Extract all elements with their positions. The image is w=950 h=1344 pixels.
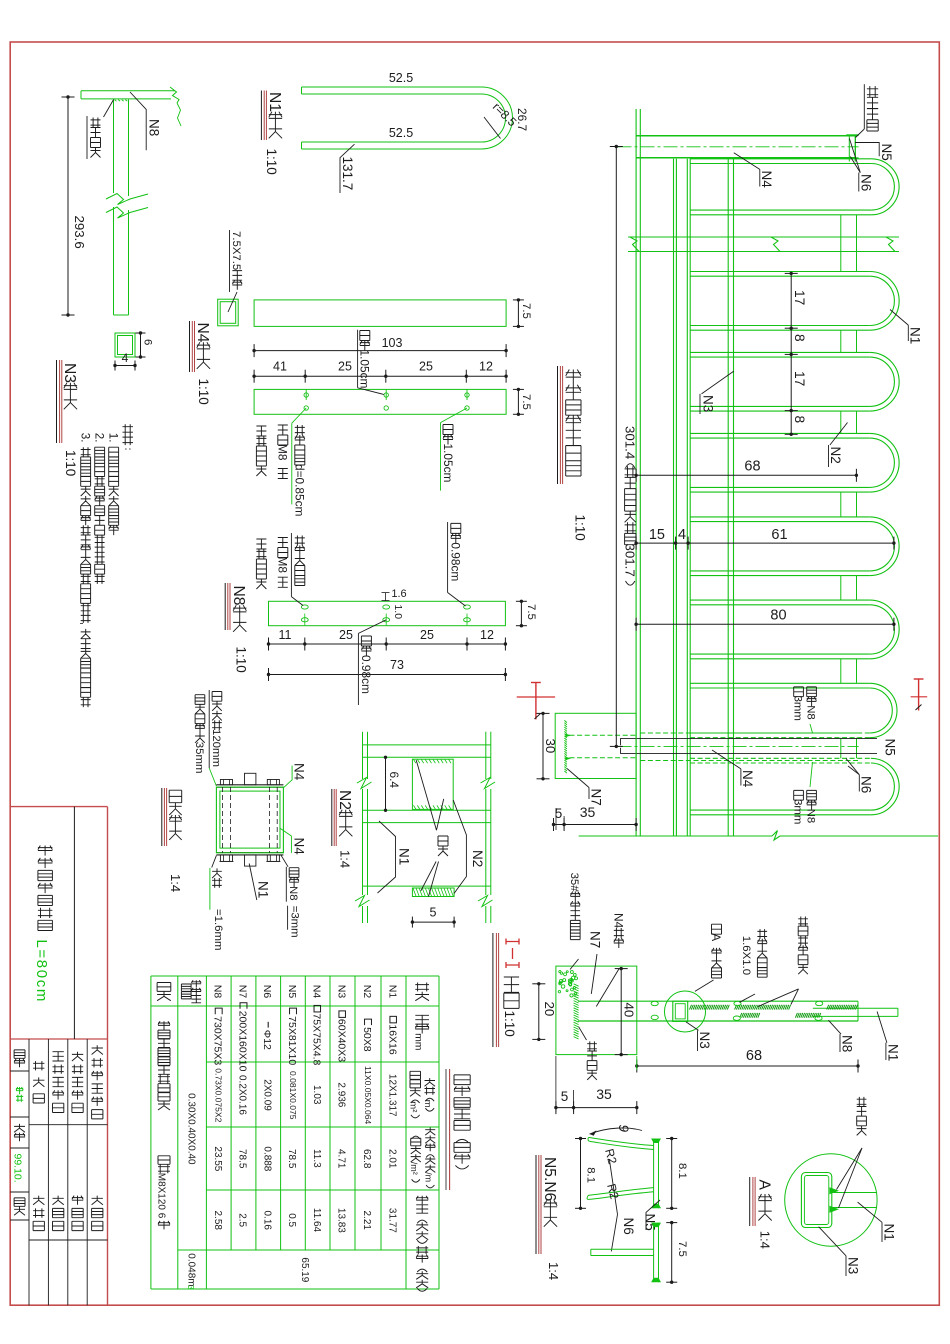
label 垫圈 =1.6mm bbox=[212, 855, 217, 867]
svg-text:30: 30 bbox=[543, 739, 558, 754]
title 乙种护栏立面图 1:10 bbox=[557, 366, 559, 484]
svg-text:7.5X7.5: 7.5X7.5 bbox=[230, 231, 242, 270]
N8 plate cross-section small rect bbox=[115, 333, 135, 357]
svg-text:1.0: 1.0 bbox=[392, 605, 403, 620]
svg-text:35: 35 bbox=[596, 1086, 612, 1102]
title N2 大样 1:4 bbox=[331, 789, 333, 846]
N3 tube section (rounded) bbox=[801, 1173, 831, 1228]
svg-text:5: 5 bbox=[430, 906, 437, 920]
label N5 (top) bbox=[855, 143, 879, 157]
title N4 大样 1:10 bbox=[189, 321, 191, 372]
anchor studs (green triangles) bbox=[565, 734, 571, 738]
label N1 with bent leader bbox=[378, 821, 396, 893]
svg-text:131.7: 131.7 bbox=[340, 157, 355, 191]
weld hatch bands (double cross weld) bbox=[690, 1005, 730, 1010]
label 焊接 with leaders bbox=[416, 760, 436, 830]
svg-text:78.5: 78.5 bbox=[286, 1149, 297, 1169]
dimension 80 bbox=[636, 623, 894, 625]
dimension 5 35 (foundation) bbox=[554, 824, 637, 826]
label 钢板N8 厚3mm (upper) bbox=[807, 687, 817, 706]
svg-text:A: A bbox=[709, 933, 723, 941]
dimension 20 bbox=[538, 984, 540, 1040]
label N4 (right lower, green leader) bbox=[280, 828, 291, 853]
label 周边焊接 (section bottom left) bbox=[579, 1027, 587, 1040]
svg-text:68: 68 bbox=[744, 459, 760, 475]
dimension 6.4 bbox=[385, 757, 387, 810]
svg-text:N4: N4 bbox=[292, 838, 307, 856]
label N4 (top right, green leader) bbox=[283, 766, 292, 788]
label 预留圆孔 d=0.85cm / 内插 M8 型 / 六角头螺栓 (green leader to left hole) bbox=[292, 408, 306, 423]
svg-text:12: 12 bbox=[479, 360, 493, 374]
svg-text:61: 61 bbox=[771, 527, 787, 543]
svg-text:11.3: 11.3 bbox=[311, 1149, 322, 1168]
table header 重量(千克) bbox=[416, 1196, 428, 1244]
label N6 (bottom) bbox=[846, 759, 859, 775]
table row 螺栓 bbox=[157, 983, 171, 1001]
bolt detail: N4 tube square bbox=[216, 787, 283, 853]
svg-text:N4: N4 bbox=[292, 763, 307, 781]
svg-text:M8: M8 bbox=[276, 444, 290, 461]
svg-text:8: 8 bbox=[792, 416, 807, 424]
post N3 (vertical, with break) bbox=[113, 100, 115, 194]
N3 tube section in circle bbox=[673, 1001, 688, 1021]
label 钢板N8 =3mm bbox=[281, 855, 288, 867]
break zigzag left bbox=[630, 237, 639, 252]
horizontal member lines bbox=[363, 744, 491, 746]
svg-text:/m: /m bbox=[424, 1172, 434, 1182]
svg-text:11: 11 bbox=[279, 628, 292, 642]
svg-text:N1: N1 bbox=[387, 985, 398, 999]
svg-text:N5: N5 bbox=[286, 985, 297, 999]
title 螺栓大样 1:4 bbox=[161, 788, 163, 846]
dimension row 11 25 25 12 bbox=[269, 643, 506, 645]
loop bar N1 top bbox=[690, 351, 870, 353]
dimension 5 35 below section bbox=[556, 1107, 637, 1109]
green leader to bolt bbox=[209, 768, 216, 786]
svg-text:25: 25 bbox=[420, 628, 434, 642]
ground line bottom bbox=[579, 835, 772, 837]
svg-text:301.4: 301.4 bbox=[623, 426, 638, 459]
svg-text:6.4: 6.4 bbox=[387, 772, 401, 789]
loop bar N1 bottom bbox=[690, 329, 870, 331]
label 钢板N8 厚3mm (lower) bbox=[807, 790, 817, 809]
table header 编号 bbox=[415, 983, 429, 1001]
break zigzags left rail bbox=[357, 778, 372, 789]
loop bar N1 top bbox=[690, 682, 870, 684]
title block table lines bbox=[28, 1039, 30, 1305]
svg-text:20: 20 bbox=[542, 1002, 557, 1017]
svg-text:N1: N1 bbox=[397, 848, 412, 865]
N2 bottom plate (hatched) bbox=[412, 888, 454, 897]
dimension right 8.1 bbox=[671, 1139, 673, 1209]
svg-text:M8X120 6: M8X120 6 bbox=[155, 1173, 166, 1219]
7.5x7.5 square tube section bbox=[218, 299, 239, 326]
svg-text:Φ12: Φ12 bbox=[261, 1030, 273, 1050]
dimension 30 (foundation width) bbox=[542, 713, 544, 778]
N3 detail: top plate N8 bbox=[81, 90, 175, 92]
svg-text:N5: N5 bbox=[879, 144, 894, 161]
svg-text:2X0.09: 2X0.09 bbox=[261, 1079, 272, 1111]
label N8 (section) bbox=[828, 1020, 841, 1034]
svg-text:=3mm: =3mm bbox=[288, 906, 300, 938]
label 详 A 大样图 bbox=[712, 924, 722, 978]
label N1 (loop) bbox=[890, 310, 908, 326]
label 螺栓长度 120mm / 其中螺纹长 35mm bbox=[208, 690, 210, 768]
dimension 68 (section) bbox=[637, 1065, 858, 1067]
label 周边焊接 (A detail) bbox=[857, 1097, 867, 1136]
post embedded dashed in foundation bbox=[570, 734, 637, 736]
ground line pair (full height) bbox=[635, 109, 637, 836]
svg-text:23.55: 23.55 bbox=[212, 1146, 223, 1171]
dimension 15 4 61 bbox=[636, 542, 894, 544]
section foundation block bbox=[556, 966, 637, 1055]
svg-text:L=80cm: L=80cm bbox=[33, 939, 50, 1001]
svg-text:N1: N1 bbox=[886, 1044, 901, 1061]
N4 lower plate with holes bbox=[254, 389, 506, 414]
svg-text:0.98cm: 0.98cm bbox=[359, 655, 373, 694]
svg-text:d=0.85cm: d=0.85cm bbox=[293, 464, 307, 517]
svg-text:60X40X3: 60X40X3 bbox=[335, 1019, 347, 1062]
N1 bar stub top bbox=[245, 773, 256, 785]
dimension 103 bbox=[254, 350, 506, 352]
svg-text:9: 9 bbox=[616, 1125, 631, 1133]
svg-text:N8: N8 bbox=[287, 886, 299, 901]
dimension 7.5 right of N8 plate bbox=[520, 601, 522, 625]
svg-text:N4: N4 bbox=[612, 913, 626, 929]
svg-text:35: 35 bbox=[580, 804, 596, 820]
dimension 4 bbox=[115, 365, 135, 367]
svg-text:1:10: 1:10 bbox=[502, 1011, 517, 1037]
loop arc bbox=[870, 683, 897, 737]
svg-text:N4: N4 bbox=[740, 770, 755, 788]
title N8 大样 1:10 bbox=[224, 583, 226, 630]
svg-text:75X75X4.8: 75X75X4.8 bbox=[310, 1013, 322, 1065]
svg-text:41: 41 bbox=[273, 360, 287, 374]
label 35#混凝土基础 bbox=[570, 892, 580, 940]
label 双面交叉焊接 bbox=[798, 917, 808, 975]
label 净距 0.98cm upper right with leader bbox=[447, 522, 449, 593]
svg-text:301.7: 301.7 bbox=[623, 544, 638, 577]
svg-text:N2: N2 bbox=[336, 790, 353, 810]
label N2 with bent leader bbox=[453, 800, 466, 894]
svg-text:N5: N5 bbox=[643, 1214, 658, 1231]
svg-text:1.05cm: 1.05cm bbox=[441, 444, 455, 483]
svg-text:1:10: 1:10 bbox=[234, 647, 249, 673]
svg-text:12: 12 bbox=[480, 628, 494, 642]
svg-text:N2: N2 bbox=[361, 985, 372, 999]
loop arc bbox=[870, 352, 899, 411]
svg-text:N8: N8 bbox=[805, 809, 817, 824]
title I-I 断面 1:10 bbox=[492, 933, 494, 1047]
slot size marks 1.6 / 1.0 near middle hole bbox=[382, 592, 390, 594]
svg-text:0.5: 0.5 bbox=[286, 1213, 297, 1227]
label N2 (connector) bbox=[830, 423, 848, 446]
svg-text:13.83: 13.83 bbox=[336, 1208, 347, 1233]
svg-text:N8: N8 bbox=[230, 586, 247, 606]
svg-text:0.888: 0.888 bbox=[261, 1146, 272, 1171]
loop bar N1 bottom bbox=[690, 575, 870, 577]
svg-text:mm: mm bbox=[413, 1033, 424, 1050]
svg-text:8.1: 8.1 bbox=[584, 1167, 596, 1183]
svg-text:N4: N4 bbox=[311, 985, 322, 999]
loop bar N1 bottom bbox=[690, 737, 870, 739]
label 终端结构 bbox=[863, 84, 865, 129]
label 周边焊接 bbox=[86, 116, 88, 159]
svg-text:N5: N5 bbox=[883, 739, 898, 756]
svg-text:120mm: 120mm bbox=[210, 729, 222, 767]
break squiggle across post N3 bbox=[106, 194, 148, 205]
N2 detail: right rail (N1 bar) with breaks bbox=[485, 732, 487, 779]
svg-text:103: 103 bbox=[382, 336, 403, 350]
svg-text:0.98cm: 0.98cm bbox=[449, 542, 463, 581]
loop bar N1 top bbox=[690, 432, 870, 434]
svg-text:16X16: 16X16 bbox=[386, 1024, 398, 1055]
dimension text 301.4(非端头处长度为 301.7) bbox=[625, 464, 636, 586]
terminal post N4 (top) bbox=[636, 135, 855, 137]
leader 131.7 bbox=[340, 144, 355, 193]
loop arc bbox=[870, 517, 899, 576]
loop bar N1 bottom bbox=[690, 214, 871, 216]
svg-text:1:10: 1:10 bbox=[63, 450, 78, 476]
bracket leader lines to N5 label (bottom) bbox=[621, 739, 878, 746]
ground break zigzag bbox=[772, 831, 780, 841]
N1 U-bar detail: straight legs bbox=[302, 86, 482, 88]
svg-text:8: 8 bbox=[792, 334, 807, 342]
svg-text:4: 4 bbox=[122, 351, 129, 365]
svg-text:2.: 2. bbox=[93, 433, 105, 443]
svg-text:1:10: 1:10 bbox=[196, 379, 211, 405]
svg-text:7.5: 7.5 bbox=[676, 1241, 688, 1257]
svg-text:1:4: 1:4 bbox=[168, 874, 183, 892]
break symbol on plate N8 bbox=[170, 87, 179, 103]
rail plate N8 lower pair bbox=[686, 159, 688, 836]
N1 bar stub bbox=[832, 1192, 877, 1194]
svg-text:3: 3 bbox=[186, 1285, 195, 1290]
svg-text:N1: N1 bbox=[908, 327, 923, 344]
anchor plate N7 hatched bbox=[564, 720, 567, 773]
loop bar N1 top bbox=[690, 516, 870, 518]
svg-text:2.5: 2.5 bbox=[237, 1213, 248, 1227]
svg-text:5: 5 bbox=[561, 1089, 569, 1104]
svg-text:2.936: 2.936 bbox=[336, 1082, 347, 1107]
svg-text:0.081X0.075: 0.081X0.075 bbox=[288, 1071, 298, 1120]
label 预留长圆孔 / 内插 M8型 / 六角头螺栓 (black leader to left hole) bbox=[290, 533, 292, 597]
table header 长度(m)或面积(m2) bbox=[425, 1078, 436, 1111]
loop bar N1 bottom bbox=[690, 410, 870, 412]
notes 说明 bbox=[123, 424, 134, 449]
svg-text:31.77: 31.77 bbox=[387, 1208, 398, 1233]
loop bar N1 top bbox=[690, 158, 871, 160]
svg-text:1.6: 1.6 bbox=[391, 588, 406, 600]
material table 材料用量表(一片) title bbox=[454, 1075, 470, 1169]
svg-text:25: 25 bbox=[339, 628, 353, 642]
svg-text:0.16: 0.16 bbox=[261, 1211, 272, 1231]
connectors N2 between loops bbox=[840, 215, 842, 272]
loop bar N1 bottom bbox=[690, 814, 871, 816]
svg-text:N1: N1 bbox=[256, 881, 271, 898]
label 预留长圆孔 1.6X1.0 bbox=[757, 929, 767, 977]
break zigzag middle bbox=[771, 237, 780, 252]
soil hatch band bbox=[574, 984, 579, 1039]
svg-text:1:4: 1:4 bbox=[338, 850, 353, 868]
post N4 bottom (hidden edges dashed) bbox=[640, 732, 858, 734]
concrete speckles bbox=[558, 971, 577, 997]
svg-text:,: , bbox=[79, 622, 91, 625]
svg-text:N8: N8 bbox=[212, 985, 223, 999]
label N1 (A detail) bbox=[858, 1202, 882, 1222]
loop bar N1 top bbox=[690, 271, 870, 273]
svg-text:0.73X0.075X2: 0.73X0.075X2 bbox=[214, 1068, 224, 1122]
svg-text:N3: N3 bbox=[61, 363, 78, 383]
leader N8 bbox=[130, 92, 146, 150]
svg-text:0.30X0.40X0.40: 0.30X0.40X0.40 bbox=[185, 1093, 196, 1165]
svg-text:4: 4 bbox=[678, 527, 686, 543]
svg-text:1:10: 1:10 bbox=[264, 149, 279, 175]
svg-text:52.5: 52.5 bbox=[389, 71, 413, 85]
leader 周边焊接 bbox=[104, 100, 114, 118]
dimension 7.5 right of lower plate bbox=[517, 389, 519, 414]
N5 N6 detail: vertical bar upper bbox=[653, 1139, 655, 1209]
svg-text:N5.N6: N5.N6 bbox=[541, 1157, 558, 1202]
svg-text:N8: N8 bbox=[147, 119, 162, 136]
svg-text:N4: N4 bbox=[194, 323, 211, 343]
N1 bar stub bottom bbox=[245, 855, 256, 866]
loop bar N1 bottom bbox=[690, 491, 870, 493]
svg-text:293.6: 293.6 bbox=[72, 216, 87, 249]
svg-text:12X1.317: 12X1.317 bbox=[387, 1074, 398, 1117]
section mark I-I (left) bbox=[535, 683, 537, 720]
terminal bracket N5/N6 at top post end bbox=[854, 136, 856, 162]
material table grid bbox=[150, 976, 152, 1289]
svg-text:m: m bbox=[422, 1100, 433, 1108]
N6 curved horn lower bbox=[587, 1192, 654, 1200]
N2 detail: left rail (N1 bar) with breaks bbox=[362, 732, 364, 779]
svg-text:N8: N8 bbox=[840, 1035, 855, 1052]
rail plate N8 upper pair bbox=[673, 159, 675, 836]
svg-text:75X81X10: 75X81X10 bbox=[286, 1016, 298, 1065]
break zigzags right rail bbox=[481, 778, 496, 789]
title block labels column 4 bbox=[72, 1052, 83, 1113]
label N4直埋 bbox=[614, 928, 624, 948]
svg-text:35#: 35# bbox=[568, 873, 580, 893]
table header 型式 mm bbox=[415, 1015, 429, 1033]
table header 单位重 bbox=[425, 1128, 435, 1188]
bolt heads bottom with washers bbox=[220, 855, 232, 862]
dimension 301.4 vertical line bbox=[615, 147, 617, 747]
svg-text:7.5: 7.5 bbox=[520, 303, 532, 319]
N4 upper plate bbox=[254, 300, 506, 327]
svg-text:25: 25 bbox=[338, 360, 352, 374]
dimension 7.5 right of upper plate bbox=[517, 300, 519, 327]
detail A circle (large) bbox=[785, 1154, 877, 1246]
svg-text:N7: N7 bbox=[588, 931, 603, 948]
N6 lower straight bracket bbox=[591, 1248, 654, 1250]
svg-text:65.19: 65.19 bbox=[299, 1257, 310, 1282]
drawing title 乙种护栏构造图 bbox=[38, 846, 53, 931]
N1 bar in section bbox=[813, 1007, 898, 1009]
dimension 17/8/17/8 bbox=[790, 273, 792, 434]
svg-text:2.01: 2.01 bbox=[387, 1149, 398, 1169]
slot holes on N8 plate bbox=[301, 605, 308, 609]
svg-text:N3: N3 bbox=[701, 395, 716, 412]
label N7 (anchor) bbox=[567, 769, 589, 788]
title block labels column 3 bbox=[53, 1052, 64, 1113]
dimension 40 bbox=[620, 969, 622, 1055]
foundation block (elevation) bbox=[555, 713, 636, 778]
label 净距0.98cm lower with leader bbox=[358, 620, 386, 634]
svg-text:3.: 3. bbox=[79, 433, 91, 443]
svg-text:N2: N2 bbox=[470, 850, 485, 867]
svg-text:M8: M8 bbox=[276, 557, 290, 574]
label N4 (bottom rail) bbox=[712, 750, 741, 769]
svg-text:=1.6mm: =1.6mm bbox=[212, 909, 224, 950]
post N4 bottom centerline bbox=[618, 745, 859, 747]
loop arc bbox=[870, 600, 899, 659]
svg-text:5: 5 bbox=[555, 806, 563, 821]
N2 connector piece (hatched rect) bbox=[412, 759, 453, 809]
dimension left 8.1 with R2 labels bbox=[580, 1139, 582, 1209]
svg-text:6: 6 bbox=[142, 339, 154, 345]
svg-text:40: 40 bbox=[621, 1003, 636, 1018]
bolt holes in section bbox=[651, 1001, 658, 1005]
svg-text:17: 17 bbox=[792, 371, 807, 386]
label 净距 1.05cm with green leader (right hole) bbox=[441, 408, 468, 423]
svg-text:7.5: 7.5 bbox=[525, 604, 537, 620]
svg-text:m²: m² bbox=[407, 1101, 418, 1112]
loop arc bbox=[871, 758, 899, 815]
loop bar N1 bottom bbox=[690, 658, 870, 660]
N8 plate bbox=[269, 601, 506, 625]
svg-text:3mm: 3mm bbox=[792, 696, 804, 721]
label N5 with bracket bbox=[646, 1200, 660, 1230]
dimension 7.5 lower bbox=[671, 1223, 673, 1283]
svg-text:11X0.05X0.064: 11X0.05X0.064 bbox=[363, 1066, 373, 1125]
svg-text:N7: N7 bbox=[589, 789, 604, 806]
svg-text:15: 15 bbox=[649, 527, 665, 543]
svg-text:1.: 1. bbox=[107, 433, 119, 443]
svg-text:/m²: /m² bbox=[409, 1162, 419, 1175]
title block outer red lines bbox=[10, 806, 107, 808]
table header 全重(千克) bbox=[416, 1246, 428, 1291]
svg-text:1.03: 1.03 bbox=[311, 1085, 322, 1105]
title block labels column 2 bbox=[33, 1061, 44, 1103]
svg-text:4.71: 4.71 bbox=[336, 1149, 347, 1169]
svg-text:1:10: 1:10 bbox=[573, 515, 588, 541]
label N4 (top rail) bbox=[734, 153, 760, 170]
post N4 in section (horizontal) bbox=[578, 1000, 858, 1002]
svg-text:1.05cm: 1.05cm bbox=[358, 350, 372, 389]
title N3 大样 1:10 bbox=[56, 360, 58, 443]
svg-text:50X8: 50X8 bbox=[361, 1027, 373, 1052]
fence break lines bbox=[628, 236, 899, 238]
label N6 (top) bbox=[849, 139, 860, 173]
bolt shafts (dashed) bbox=[222, 787, 224, 853]
dimension 9 (arc leader) bbox=[590, 1128, 643, 1134]
title box divider bbox=[73, 807, 75, 1039]
label N6 with leaders bbox=[609, 1159, 617, 1214]
loop arc bbox=[870, 272, 899, 331]
svg-text:80: 80 bbox=[770, 608, 786, 624]
loop bar N1 top bbox=[690, 757, 871, 759]
svg-text:78.5: 78.5 bbox=[237, 1149, 248, 1169]
svg-text:N2: N2 bbox=[828, 447, 843, 464]
label N1 with leader bbox=[249, 864, 257, 901]
title block labels column 1 bbox=[14, 1050, 25, 1067]
svg-text:N6: N6 bbox=[261, 985, 272, 999]
dimension 5 bbox=[412, 921, 454, 923]
svg-text:N1: N1 bbox=[266, 92, 283, 112]
svg-text:52.5: 52.5 bbox=[389, 126, 413, 140]
